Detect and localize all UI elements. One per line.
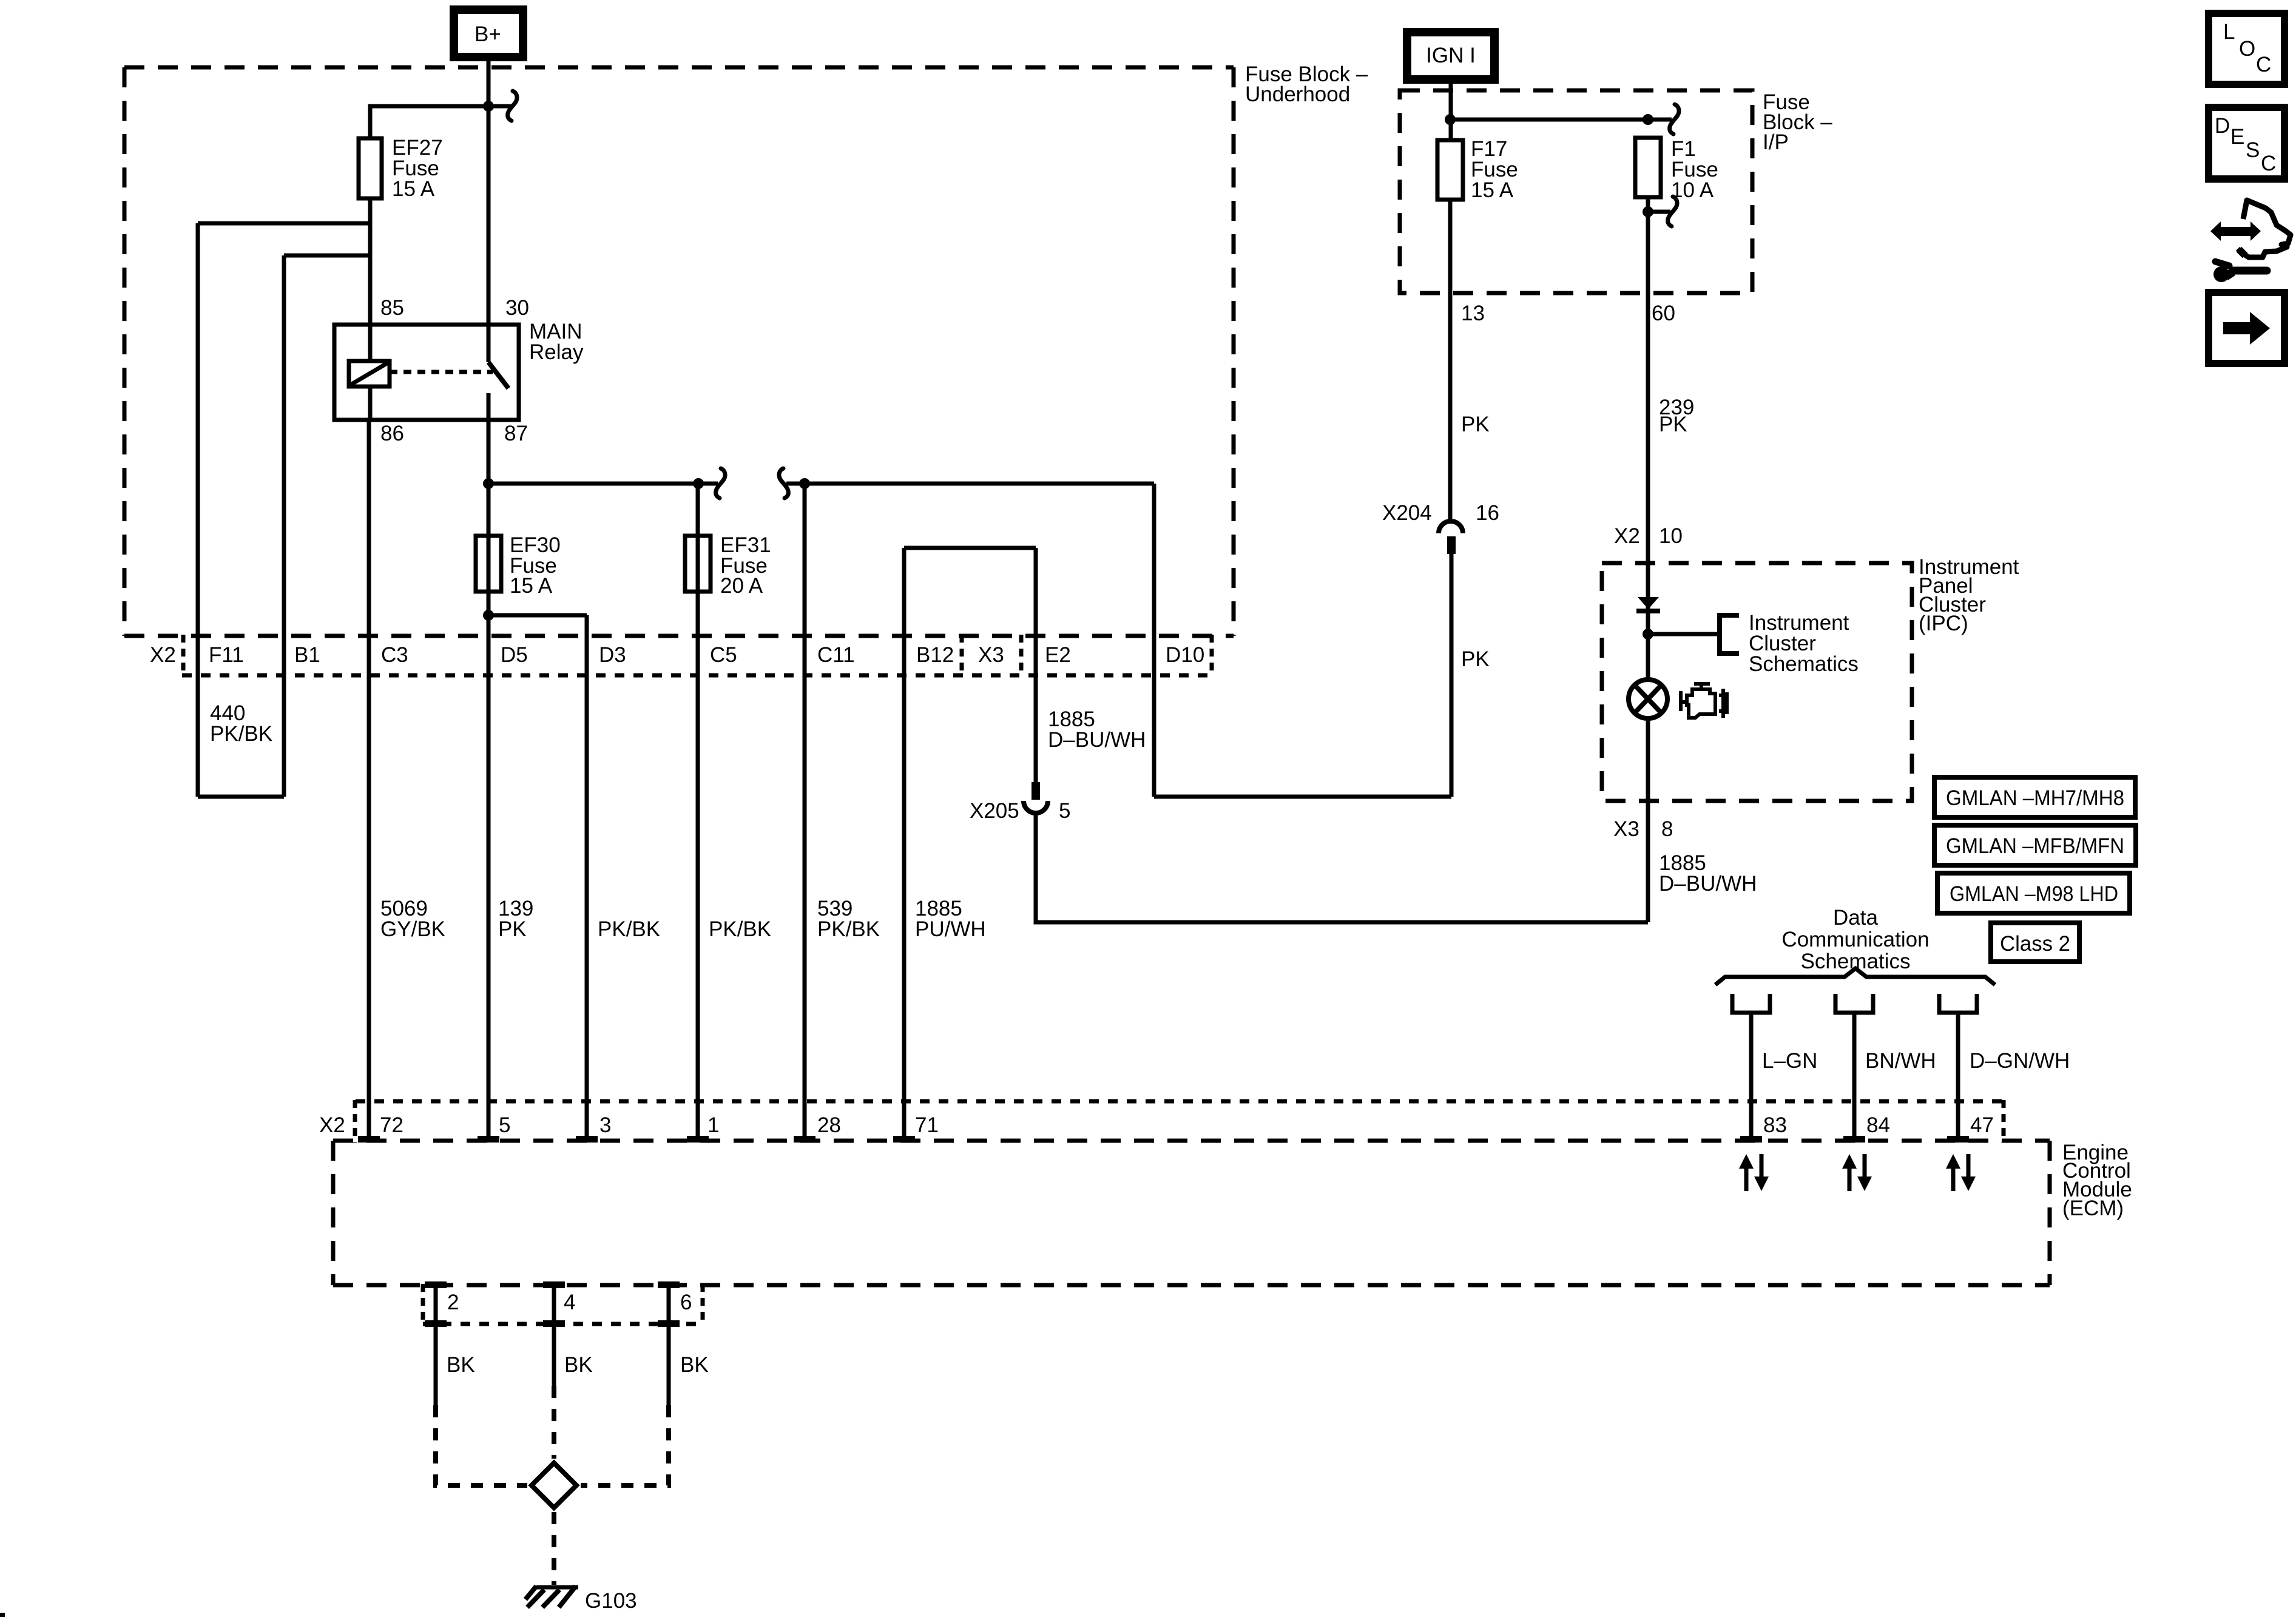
svg-text:X204: X204 (1382, 501, 1432, 525)
terminal bar ECM pin 1 (687, 1136, 709, 1143)
svg-text:83: 83 (1763, 1113, 1787, 1137)
ground sub-row pin labels (447, 1291, 692, 1314)
connector X205 female half (1024, 801, 1048, 813)
svg-text:D–GN/WH: D–GN/WH (1970, 1049, 2070, 1073)
svg-text:3: 3 (599, 1113, 611, 1137)
ECM row end cap after pin 47 (2002, 1100, 2006, 1143)
wire relay 86 to ECM pin 72 (C3, 5069 GY/BK) (367, 420, 371, 1141)
svg-text:GMLAN –MFB/MFN: GMLAN –MFB/MFN (1946, 834, 2124, 858)
svg-text:28: 28 (817, 1113, 841, 1137)
svg-text:PK/BK: PK/BK (210, 722, 272, 746)
data arrows pin 47 (1946, 1154, 1976, 1191)
node at B+ feed split (483, 101, 494, 112)
svg-text:4: 4 (564, 1291, 575, 1314)
svg-text:B+: B+ (474, 22, 501, 46)
node F1 top (1643, 114, 1653, 125)
wire X205 down and across to IPC X3-8 (1036, 813, 1648, 922)
svg-text:B12: B12 (916, 643, 954, 667)
Fuse Block Underhood dashed box (124, 67, 1234, 636)
svg-text:G103: G103 (585, 1589, 637, 1613)
svg-text:PK: PK (1461, 647, 1490, 671)
ground wire pin 2 (425, 1281, 527, 1485)
terminal bar ECM pin 3 (576, 1136, 598, 1143)
svg-text:PK: PK (1461, 413, 1490, 436)
svg-text:IGN I: IGN I (1426, 44, 1476, 67)
ECM row pin labels (319, 1113, 1994, 1137)
Instrument Panel Cluster dashed box (1602, 563, 1912, 801)
connector X205 male terminal (1032, 782, 1040, 800)
svg-text:I/P: I/P (1763, 130, 1789, 154)
svg-text:30: 30 (505, 296, 529, 320)
svg-text:6: 6 (680, 1291, 692, 1314)
wire label 1885 D-BU/WH lower (1659, 851, 1757, 896)
wire C11 down to ECM pin 28 (539 PK/BK) (803, 484, 807, 1141)
svg-text:PU/WH: PU/WH (915, 917, 986, 941)
svg-text:Underhood: Underhood (1245, 83, 1350, 106)
wire 440 loop bottom (198, 795, 284, 799)
svg-text:85: 85 (380, 296, 404, 320)
Instrument Panel Cluster label (1919, 555, 2019, 635)
svg-text:X2: X2 (319, 1113, 345, 1137)
svg-text:X2: X2 (1614, 524, 1640, 548)
wire D10 down from feed bus (1152, 484, 1156, 797)
X3 row separator right (1019, 635, 1024, 677)
svg-text:L: L (2223, 20, 2235, 44)
svg-text:2: 2 (447, 1291, 459, 1314)
svg-text:PK/BK: PK/BK (817, 917, 880, 941)
Data Communication Schematics label (1781, 906, 1929, 973)
svg-text:Relay: Relay (529, 340, 584, 364)
wire BN/WH to ECM pin 84 (1852, 1013, 1857, 1141)
Fuse Block I/P label (1763, 90, 1832, 154)
svg-text:C11: C11 (817, 643, 855, 667)
ECM label (2062, 1141, 2132, 1220)
svg-text:86: 86 (380, 422, 404, 445)
wire up to X204 male terminal (1450, 553, 1454, 797)
svg-text:16: 16 (1476, 501, 1499, 525)
relay contact arm (488, 325, 508, 420)
svg-text:D3: D3 (599, 643, 626, 667)
GMLAN MH7/MH8 box (1934, 777, 2135, 817)
svg-text:15 A: 15 A (1471, 178, 1514, 202)
wire stub right of F1 bottom (1648, 210, 1670, 214)
svg-text:D10: D10 (1166, 643, 1204, 667)
IPC X3 pin 8 labels (1613, 817, 1673, 841)
DESC icon box (2209, 107, 2284, 179)
svg-text:13: 13 (1461, 302, 1485, 325)
svg-text:C5: C5 (710, 643, 737, 667)
svg-text:D–BU/WH: D–BU/WH (1659, 872, 1757, 896)
terminal bar ECM pin 5 (478, 1136, 499, 1143)
ECM connector row top line (356, 1099, 2004, 1104)
svg-text:PK: PK (498, 917, 527, 941)
GMLAN MFB/MFN box (1934, 825, 2136, 865)
svg-text:10: 10 (1659, 524, 1683, 548)
IGN I power terminal box (1407, 32, 1494, 79)
underhood connector row X2 bottom line (182, 673, 1212, 678)
EF30 label (510, 533, 561, 598)
svg-text:Schematics: Schematics (1749, 652, 1859, 676)
ECM row X2 separator (353, 1100, 357, 1143)
Instrument Cluster Schematics label (1749, 611, 1859, 676)
svg-text:D–BU/WH: D–BU/WH (1048, 728, 1146, 752)
svg-text:O: O (2239, 37, 2255, 61)
wire branch to instrument cluster schematics (1648, 632, 1717, 636)
wire inside IPC down to X3-8 (1646, 563, 1650, 922)
MAIN Relay label (529, 320, 584, 364)
svg-text:C: C (2261, 152, 2276, 175)
svg-text:B1: B1 (294, 643, 320, 667)
terminal bar ECM pin 47 (1947, 1136, 1969, 1143)
svg-text:(IPC): (IPC) (1919, 612, 1968, 635)
data link connector symbol pin 47 (1939, 994, 1977, 1013)
wire IGN I down to F17 (1449, 79, 1453, 140)
X2 row separator (181, 635, 186, 677)
node relay87 / feed split (483, 478, 494, 489)
ground lead below splice (552, 1512, 556, 1585)
fuse EF31 20A (685, 536, 711, 592)
wire L-GN to ECM pin 83 (1749, 1013, 1754, 1141)
svg-text:71: 71 (915, 1113, 939, 1137)
svg-text:Communication: Communication (1781, 928, 1929, 951)
engine MIL icon (1681, 684, 1727, 718)
break symbol at F1 top stub (1670, 104, 1679, 134)
data arrows pin 83 (1739, 1154, 1769, 1191)
connector X204 female half (1439, 521, 1463, 533)
terminal bar ECM pin 28 (794, 1136, 815, 1143)
svg-text:72: 72 (380, 1113, 403, 1137)
wire stub right of B+ node (488, 104, 512, 109)
svg-text:PK/BK: PK/BK (598, 917, 660, 941)
wire EF27 output down to relay pin 85 (368, 198, 373, 325)
arrow icon box (2209, 292, 2284, 363)
svg-text:5: 5 (1059, 799, 1070, 823)
X3 row separator left (960, 635, 964, 677)
wire stub right of F1 top (1648, 118, 1672, 122)
EF31 label (720, 533, 771, 598)
relay MAIN box (334, 325, 519, 420)
svg-text:15 A: 15 A (510, 574, 553, 598)
node EF30 output / D3 split (483, 610, 494, 621)
connector X204 male terminal (1447, 536, 1456, 554)
svg-text:X3: X3 (978, 643, 1004, 667)
svg-text:84: 84 (1866, 1113, 1890, 1137)
wire branch B1 to EF27 output (284, 254, 370, 258)
Class 2 box (1991, 923, 2079, 962)
node IPC internal split (1643, 629, 1653, 640)
ground wire pin 6 (581, 1281, 680, 1485)
wire F17 down to X204 (1448, 200, 1453, 522)
terminal bar ECM pin 83 (1740, 1136, 1762, 1143)
svg-text:C: C (2256, 53, 2271, 76)
ground G103 symbol (525, 1586, 578, 1607)
svg-text:Class 2: Class 2 (2000, 932, 2070, 956)
svg-text:5: 5 (499, 1113, 510, 1137)
IPC X2 pin 10 labels (1614, 524, 1683, 548)
F1 label (1671, 137, 1718, 202)
svg-text:8: 8 (1661, 817, 1673, 841)
wire E2 down to X205 (1034, 548, 1038, 782)
svg-text:L–GN: L–GN (1762, 1049, 1817, 1073)
svg-text:D: D (2215, 114, 2230, 138)
svg-text:BK: BK (564, 1353, 593, 1377)
Fuse Block Underhood label (1245, 62, 1368, 106)
svg-text:D5: D5 (501, 643, 528, 667)
fuse EF27 15A (359, 138, 382, 198)
wire branch EF27 to pin F11 (198, 221, 370, 226)
svg-text:X3: X3 (1613, 817, 1639, 841)
ECM ground sub-row caps and bottom line (423, 1284, 703, 1325)
terminal bar ECM pin 72 (358, 1136, 380, 1143)
wire F1 down to IPC (1646, 197, 1650, 563)
node C11 top (799, 478, 810, 489)
node F1 bottom stub (1643, 206, 1653, 217)
relay coil (349, 325, 390, 420)
svg-text:X2: X2 (150, 643, 176, 667)
svg-text:15 A: 15 A (392, 177, 435, 201)
fuse EF30 15A (476, 536, 501, 592)
wire feed bus from relay 87 node to EF31 (488, 482, 718, 486)
node F17 top (1445, 114, 1456, 125)
wire tie F17 to F1 (1450, 118, 1648, 122)
wire labels above ECM row (380, 897, 986, 941)
wire B1 up through connector row (282, 255, 286, 797)
GMLAN M98 LHD box (1937, 873, 2130, 913)
wire branch to D3 (488, 613, 587, 618)
svg-text:20 A: 20 A (720, 574, 763, 598)
EF27 label (392, 136, 443, 201)
wire relay 87 down through EF30 to ECM pin 5 (D5, 139 PK) (487, 420, 491, 1141)
svg-text:X205: X205 (970, 799, 1019, 823)
wire feed bus to D10 (786, 482, 1154, 486)
wire B+ feed down to relay pin 30 (487, 57, 491, 325)
indicator lamp inside IPC (1629, 680, 1667, 718)
svg-text:60: 60 (1652, 302, 1675, 325)
ground wire pin 4 (543, 1281, 565, 1459)
svg-text:S: S (2246, 138, 2260, 162)
wire D-GN/WH to ECM pin 47 (1956, 1013, 1960, 1141)
wire F11 down through connector row (196, 223, 200, 797)
Engine Control Module dashed box (333, 1141, 2050, 1285)
svg-text:GMLAN –M98 LHD: GMLAN –M98 LHD (1950, 882, 2118, 906)
wire D3 down to ECM pin 3 (PK/BK) (585, 615, 589, 1141)
svg-text:87: 87 (504, 422, 528, 445)
svg-text:BK: BK (447, 1353, 475, 1377)
wire B12 up from ECM pin 71 (1885 PU/WH) (902, 548, 907, 1141)
underhood connector row X2 top line (124, 634, 1234, 638)
wire label 1885 D-BU/WH upper (1048, 707, 1146, 752)
break symbol start of C11 feed (779, 468, 788, 498)
svg-text:F11: F11 (209, 643, 244, 667)
node EF31 top (693, 478, 704, 489)
fuse F17 15A (1437, 140, 1463, 200)
wire label 440 PK/BK (210, 701, 272, 746)
Fuse Block I/P dashed box (1400, 90, 1752, 293)
svg-text:PK: PK (1659, 413, 1687, 436)
data link connector symbol pin 83 (1732, 994, 1770, 1013)
terminal bar ECM pin 84 (1843, 1136, 1865, 1143)
wire loop top B12 to E2 (904, 546, 1036, 550)
page corner mark (0, 1613, 5, 1617)
break symbol at B+ stub (508, 91, 517, 121)
F17 label (1471, 137, 1518, 202)
break symbol at F1 bottom stub (1668, 197, 1677, 226)
data communication brace (1715, 968, 1995, 985)
terminal bar ECM pin 71 (893, 1136, 915, 1143)
svg-text:PK/BK: PK/BK (709, 917, 771, 941)
data arrows pin 84 (1842, 1154, 1872, 1191)
component locator icon (2210, 200, 2291, 282)
relay coil-contact dashed link (390, 370, 493, 374)
diode inside IPC (1636, 597, 1660, 613)
svg-text:E2: E2 (1045, 643, 1071, 667)
wire branch from B+ node to EF27 (370, 106, 488, 138)
svg-text:(ECM): (ECM) (2062, 1197, 2124, 1220)
svg-text:GY/BK: GY/BK (380, 917, 445, 941)
D10 row end cap (1210, 635, 1214, 677)
svg-text:Data: Data (1833, 906, 1878, 930)
data link connector symbol pin 84 (1835, 994, 1873, 1013)
fuse F1 10A (1635, 138, 1661, 197)
svg-text:BK: BK (680, 1353, 709, 1377)
splice diamond (532, 1463, 576, 1508)
LOC icon box (2209, 13, 2284, 84)
svg-text:E: E (2230, 125, 2244, 149)
svg-text:BN/WH: BN/WH (1865, 1049, 1936, 1073)
svg-text:1: 1 (707, 1113, 719, 1137)
instrument cluster schematics bracket (1720, 613, 1739, 656)
row X2 connector pin labels (150, 643, 1204, 667)
svg-text:GMLAN –MH7/MH8: GMLAN –MH7/MH8 (1946, 786, 2124, 810)
svg-text:C3: C3 (381, 643, 408, 667)
wire EF31 down to ECM pin 1 (C5, PK/BK) (696, 484, 700, 1141)
wire label 239 PK (1659, 396, 1694, 436)
break symbol end of feed stub (716, 468, 725, 498)
wire D10 across to X204 branch (1154, 795, 1451, 799)
B+ power terminal box (454, 10, 523, 57)
svg-text:47: 47 (1970, 1113, 1994, 1137)
